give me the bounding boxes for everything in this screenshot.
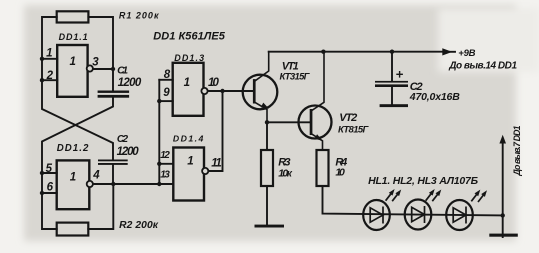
svg-text:10: 10 xyxy=(208,77,219,89)
svg-text:9: 9 xyxy=(163,87,170,99)
svg-text:1200: 1200 xyxy=(118,77,142,89)
svg-text:DD1.1: DD1.1 xyxy=(59,32,88,42)
svg-text:HL1. HL2, HL3 АЛ107Б: HL1. HL2, HL3 АЛ107Б xyxy=(368,175,479,187)
svg-text:470,0x16В: 470,0x16В xyxy=(409,91,460,103)
svg-text:КТ815Г: КТ815Г xyxy=(338,125,370,136)
svg-text:10: 10 xyxy=(335,167,345,179)
svg-text:1200: 1200 xyxy=(117,146,140,158)
svg-text:1: 1 xyxy=(184,77,190,89)
svg-text:До выв.14 DD1: До выв.14 DD1 xyxy=(448,60,517,71)
svg-text:5: 5 xyxy=(46,163,53,175)
svg-text:11: 11 xyxy=(211,157,222,169)
svg-text:DD1.3: DD1.3 xyxy=(174,53,204,63)
svg-text:R2 200к: R2 200к xyxy=(119,220,159,231)
svg-text:1: 1 xyxy=(70,56,76,68)
svg-text:1: 1 xyxy=(70,172,76,184)
svg-text:DD1 К561ЛЕ5: DD1 К561ЛЕ5 xyxy=(153,30,226,42)
svg-text:DD1.2: DD1.2 xyxy=(57,143,89,154)
svg-text:2: 2 xyxy=(46,70,54,82)
svg-text:6: 6 xyxy=(47,182,54,194)
svg-text:VT2: VT2 xyxy=(339,112,357,124)
svg-text:12: 12 xyxy=(160,150,170,161)
svg-text:C2: C2 xyxy=(117,134,129,145)
svg-text:10к: 10к xyxy=(278,168,292,180)
svg-text:8: 8 xyxy=(164,69,171,81)
svg-text:13: 13 xyxy=(160,170,170,181)
svg-text:C1: C1 xyxy=(117,64,128,76)
svg-text:R1 200к: R1 200к xyxy=(119,11,159,21)
svg-text:1: 1 xyxy=(46,48,52,60)
svg-text:4: 4 xyxy=(92,170,100,182)
svg-text:DD1.4: DD1.4 xyxy=(173,134,204,144)
svg-text:+9В: +9В xyxy=(458,48,475,59)
svg-text:КТ315Г: КТ315Г xyxy=(280,72,311,83)
svg-text:1: 1 xyxy=(187,156,193,168)
svg-text:До выв.7 DD1: До выв.7 DD1 xyxy=(512,125,522,176)
svg-text:3: 3 xyxy=(92,57,99,69)
